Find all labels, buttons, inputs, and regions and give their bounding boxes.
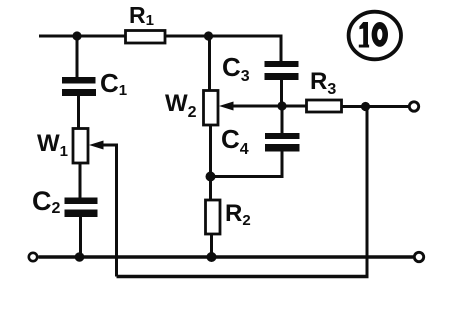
terminal top-right [409,102,418,111]
wire C3 bottom to wiper node [280,80,283,106]
svg-text:R1: R1 [129,2,154,29]
badge circle 10 [349,12,401,60]
wire R3 right to output terminal [342,105,409,108]
wire C2 bottom to rail [79,217,82,257]
potentiometer W1 [73,129,88,164]
terminal bottom-left [29,253,37,261]
wire W1 wiper to feedback line [101,145,117,277]
node W2/R2 junction [206,172,216,182]
wiper arrow W1 [89,141,104,150]
resistor R1 [126,31,166,44]
svg-text:C3: C3 [222,52,250,85]
svg-text:W1: W1 [37,130,68,160]
capacitor C1 [62,77,96,96]
wire W2 wiper to R3 [231,105,306,108]
wire W1 bottom to C2 [79,163,82,198]
wire C1 bottom to W1 [77,96,80,129]
svg-text:C4: C4 [221,124,249,158]
svg-text:R3: R3 [310,68,336,98]
badge digit 1 [359,22,368,45]
svg-text:C1: C1 [100,68,127,99]
wire input top-left to R1 [39,35,125,38]
badge digit 0 [372,22,388,47]
node C3-C4 junction [277,101,286,110]
wire corner down to C3 [280,35,283,63]
wire R2 bottom to rail [210,234,213,257]
capacitor C2 [65,198,98,218]
node top-left junction [72,31,81,40]
wire output vertical to feedback [366,107,369,279]
node rail left junction [75,252,85,262]
svg-text:W2: W2 [165,90,197,121]
wire W2 bottom [209,125,212,178]
node top middle junction [204,31,213,40]
terminal bottom-right [414,252,423,261]
wire left branch node to C1 [76,36,79,78]
wire node to R2 [209,177,212,201]
svg-text:C2: C2 [32,186,61,217]
wire W2 branch from top node [208,36,211,91]
wiper arrow W2 [219,102,234,111]
wire R1 right to corner [165,35,283,38]
node output junction [361,102,370,111]
capacitor C4 [265,133,300,152]
wire C4 bottom to W2 bottom node [209,152,282,177]
potentiometer W2 [204,91,219,126]
wire bottom rail [39,255,414,258]
node rail R2 junction [207,252,217,262]
capacitor C3 [265,61,299,80]
resistor R3 [307,100,342,112]
svg-text:R2: R2 [225,200,251,229]
wire junction to C4 [281,106,284,133]
wire lower feedback [117,275,369,278]
resistor R2 [206,200,221,234]
